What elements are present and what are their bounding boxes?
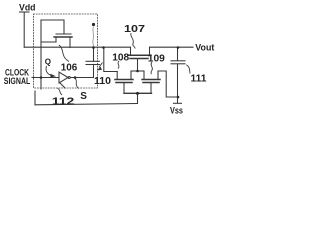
wire inverter output (71, 77, 94, 79)
transistor 107 source stub (130, 47, 132, 55)
transistor 107 gate bar (130, 58, 148, 60)
leader 112 (58, 89, 63, 96)
wire node 110 vertical (104, 47, 117, 71)
transistor 107 gate lead (137, 59, 139, 72)
wire top transistor left terminal (41, 41, 56, 43)
arrowhead Q (50, 74, 56, 78)
leader 106 (59, 45, 69, 62)
transistor 107 channel (128, 54, 151, 56)
leader 107 (131, 33, 135, 49)
svg-text:Q: Q (45, 58, 51, 67)
latch top transistor right stub (69, 37, 71, 48)
leader 109 (151, 62, 152, 74)
svg-text:106: 106 (61, 61, 78, 73)
leader 111 (186, 65, 190, 74)
wire rail 107 to Vout (150, 46, 194, 48)
node dot rail left cap (92, 46, 95, 49)
transistor 107 drain stub (149, 47, 151, 55)
wire bottom return (35, 104, 138, 105)
svg-text:110: 110 (94, 75, 111, 87)
node dot Vout (177, 46, 180, 49)
transistor 109 right stub (157, 71, 159, 79)
leader S wavy (75, 79, 79, 89)
wire bottom left vertical (34, 91, 36, 105)
wire gate tie 108-109 (124, 92, 152, 94)
transistor 109 left stub (143, 71, 145, 79)
latch rectangle loop top (41, 20, 64, 34)
node dot 107 gate (136, 70, 139, 73)
svg-text:111: 111 (191, 74, 207, 85)
svg-text:108: 108 (112, 52, 129, 64)
inverter 106 triangle (59, 72, 68, 83)
junction dots (40, 23, 180, 98)
transistor 109 gate bar (143, 82, 159, 84)
capacitor 111 plates (171, 60, 185, 62)
node dot rail 110 (102, 46, 105, 49)
node dot inverter output (74, 76, 77, 79)
node dot Vss (177, 96, 180, 99)
wire 109 to Vss branch (158, 71, 178, 97)
node dot gate tie (136, 92, 139, 95)
svg-text:107: 107 (124, 23, 145, 35)
latch top transistor gate bar (56, 33, 71, 35)
wire latch left vertical (40, 20, 42, 89)
Vss terminal bar (174, 102, 182, 104)
transistor 108 left stub (116, 72, 118, 80)
wire capacitor upper lead (93, 47, 95, 61)
wire 108 to 109 (131, 70, 144, 72)
svg-text:Vout: Vout (195, 42, 214, 52)
latch top transistor channel (54, 36, 72, 38)
leader 110 stem (99, 63, 103, 68)
latch top transistor left stub (55, 37, 57, 42)
transistor 108 channel (115, 79, 133, 81)
leader lines (46, 27, 190, 96)
wire gate tie down (137, 93, 139, 103)
inverter 106 bubble (68, 77, 70, 79)
node a blob (92, 23, 95, 26)
wire capacitor 111 bottom lead (177, 64, 179, 103)
transistor 108 gate bar (116, 82, 132, 84)
node dot clock (40, 76, 43, 79)
svg-text:109: 109 (148, 53, 165, 65)
arrowhead 110 (97, 67, 102, 71)
transistor 108 gate lead (123, 83, 125, 94)
inverter clock tail (60, 83, 65, 88)
leader 108 (118, 61, 119, 69)
svg-text:S: S (80, 91, 87, 102)
node a faint trace (92, 27, 95, 47)
dashed box (latch block) (34, 14, 98, 88)
wire Vdd rail to transistor 107 (24, 46, 130, 48)
wire capacitor lower lead (93, 65, 95, 78)
svg-text:Vdd: Vdd (19, 2, 36, 13)
svg-text:112: 112 (52, 96, 75, 108)
svg-text:SIGNAL: SIGNAL (4, 76, 31, 87)
transistor 108 right stub (130, 71, 132, 79)
transistor 109 gate lead (150, 83, 152, 94)
wire clock input (32, 77, 59, 79)
transistor 109 channel (142, 79, 160, 81)
wire Vdd vertical (23, 12, 25, 47)
svg-text:Vss: Vss (170, 105, 183, 115)
leader Q (46, 66, 51, 75)
Vdd terminal bar (20, 11, 30, 13)
wire capacitor 111 top lead (177, 47, 179, 60)
capacitor plates (latch) (86, 64, 100, 66)
